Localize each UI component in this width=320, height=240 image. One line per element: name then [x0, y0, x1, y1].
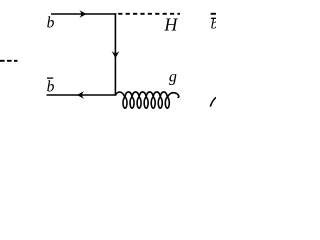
svg-text:b: b — [47, 79, 55, 96]
gluon: outgoing gluon coil — [115, 92, 178, 108]
wire: outgoing Higgs boson dashed line — [118, 13, 180, 15]
wire: incoming b-bar quark line (bottom) — [47, 94, 117, 96]
gluon fragment of adjacent diagram (bottom right edge) — [210, 97, 216, 106]
arrowhead on b-bar line (pointing left) — [77, 91, 84, 99]
label b-bar (incoming bottom antiquark): bar — [47, 77, 53, 79]
wire: dashed fragment of adjacent diagram (top right edge) — [211, 13, 217, 15]
svg-text:g: g — [169, 69, 177, 86]
wire: internal b-quark propagator (vertical) — [114, 13, 116, 95]
arrowhead on propagator (pointing down) — [112, 51, 120, 58]
svg-text:b: b — [47, 15, 55, 32]
arrowhead on b quark line (pointing right) — [79, 10, 86, 18]
svg-text:b: b — [211, 17, 216, 33]
wire: leftover dashed Higgs line fragment from adjacent diagram (left edge) — [0, 60, 18, 62]
svg-text:H: H — [163, 15, 178, 35]
label b-bar fragment of adjacent diagram (right edge): bar — [211, 17, 217, 19]
wire: incoming b quark line (top) — [51, 13, 116, 15]
